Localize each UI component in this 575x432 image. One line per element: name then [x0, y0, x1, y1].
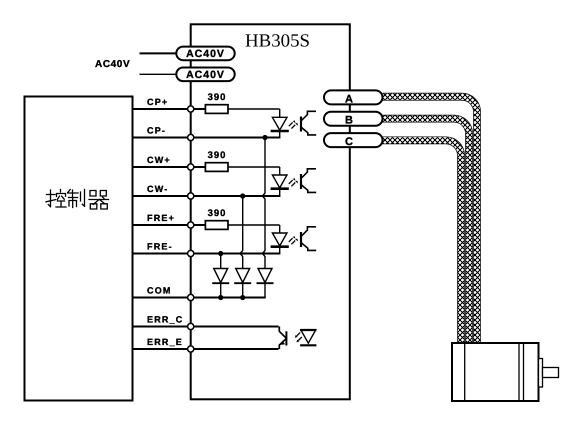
motor body — [452, 343, 539, 401]
error opto LED — [300, 330, 316, 345]
controller box 控制器 — [25, 97, 133, 401]
optocoupler U3 LED — [271, 225, 299, 254]
error opto light arrows — [295, 332, 302, 342]
svg-text:FRE-: FRE- — [147, 242, 173, 252]
wire CW+ — [133, 166, 206, 168]
wire CP- — [133, 137, 281, 139]
light arrows U2 — [289, 180, 295, 186]
svg-text:FRE+: FRE+ — [147, 213, 175, 223]
light arrows U1 — [289, 122, 295, 128]
wire AC40V stub 1 — [140, 52, 178, 54]
resistor R2 390 — [205, 150, 279, 171]
svg-text:390: 390 — [208, 150, 227, 161]
svg-text:390: 390 — [208, 92, 227, 103]
terminal oval C — [324, 133, 383, 148]
wire ERR_E — [133, 348, 279, 350]
diode D3 — [257, 269, 274, 298]
wire CW- — [133, 195, 281, 197]
motor body left seam — [464, 343, 466, 401]
junction dot CW- — [240, 193, 245, 198]
器 — [90, 191, 106, 197]
svg-text:C: C — [345, 136, 353, 148]
pin circle FRE+ — [188, 222, 194, 228]
pin circle CP- — [188, 134, 194, 140]
svg-text:ERR_C: ERR_C — [147, 315, 184, 325]
svg-text:AC40V: AC40V — [186, 48, 225, 60]
motor body right seam 1 — [518, 343, 520, 401]
svg-text:B: B — [345, 115, 353, 127]
optocoupler U1 LED — [271, 109, 299, 138]
svg-text:CP-: CP- — [147, 126, 166, 136]
制 — [68, 190, 79, 208]
junction dot CP- — [262, 135, 267, 140]
svg-text:390: 390 — [208, 208, 227, 219]
wire AC40V stub 2 — [140, 73, 178, 75]
optocoupler U3 phototransistor — [301, 227, 316, 251]
motor cable B braid — [383, 119, 470, 343]
svg-text:ERR_E: ERR_E — [147, 337, 183, 347]
hop arrow at CW- crossing — [261, 194, 265, 199]
motor shaft — [543, 368, 559, 378]
wire FRE+ — [133, 224, 206, 226]
pin circle COM — [188, 294, 194, 300]
optocoupler U2 phototransistor — [301, 169, 316, 193]
hop arrow at FRE- crossing (CP- drop) — [261, 251, 265, 256]
svg-text:A: A — [345, 93, 353, 105]
drop wire from FRE- — [220, 254, 222, 269]
junction dot COM-D1 — [218, 295, 223, 300]
pin circle ERR_C — [188, 323, 194, 329]
driver box HB305S — [191, 24, 350, 399]
svg-text:AC40V: AC40V — [95, 59, 130, 70]
svg-text:CW-: CW- — [147, 184, 168, 194]
motor cable A braid — [383, 97, 478, 343]
optocoupler U2 LED — [271, 167, 299, 196]
wire FRE- — [133, 253, 281, 255]
optocoupler U1 phototransistor — [301, 111, 316, 135]
pin circle CW+ — [188, 164, 194, 170]
resistor R3 390 — [205, 208, 279, 229]
motor flange — [539, 359, 543, 388]
控 — [46, 190, 56, 207]
error opto transistor Q1 — [279, 327, 286, 350]
motor body right seam 2 — [523, 343, 525, 401]
svg-text:CW+: CW+ — [147, 155, 171, 165]
text 控制器 (hand-drawn glyphs) — [46, 190, 109, 210]
light arrows U3 — [289, 238, 295, 244]
wire CP+ — [133, 108, 206, 110]
svg-text:COM: COM — [147, 286, 172, 296]
terminal oval B — [324, 112, 383, 127]
pin circle CP+ — [188, 106, 194, 112]
wire ERR_C — [133, 326, 279, 328]
wire COM — [133, 297, 266, 299]
terminal oval AC40V #1 — [176, 47, 234, 61]
pin circle CW- — [188, 193, 194, 199]
diode D2 — [234, 269, 251, 298]
motor cable C braid — [383, 140, 462, 343]
pin labels — [147, 97, 184, 347]
junction dot FRE- — [218, 251, 223, 256]
pin circle FRE- — [188, 250, 194, 256]
svg-text:AC40V: AC40V — [186, 69, 225, 81]
drop wire from CW- — [240, 196, 243, 269]
pin circle ERR_E — [188, 346, 194, 352]
hop arrow at FRE- crossing (CW- drop) — [238, 251, 242, 256]
diode D1 — [212, 269, 229, 298]
terminal oval AC40V #2 — [176, 68, 234, 82]
svg-text:CP+: CP+ — [147, 97, 168, 107]
drop wire from CP- — [263, 138, 266, 269]
svg-text:HB305S: HB305S — [245, 31, 310, 51]
terminal oval A — [324, 90, 383, 105]
junction dot COM-D2 — [240, 295, 245, 300]
resistor R1 390 — [205, 92, 279, 113]
